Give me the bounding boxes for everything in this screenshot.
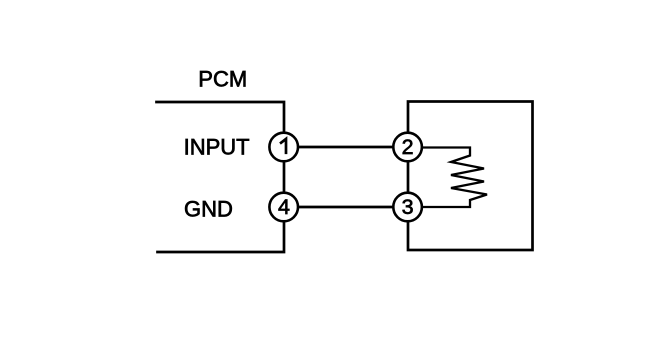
svg-text:2: 2 xyxy=(402,135,414,159)
svg-text:4: 4 xyxy=(278,195,290,219)
svg-text:3: 3 xyxy=(402,195,414,219)
svg-text:INPUT: INPUT xyxy=(184,134,250,159)
svg-text:GND: GND xyxy=(184,196,233,221)
svg-text:PCM: PCM xyxy=(198,67,247,92)
